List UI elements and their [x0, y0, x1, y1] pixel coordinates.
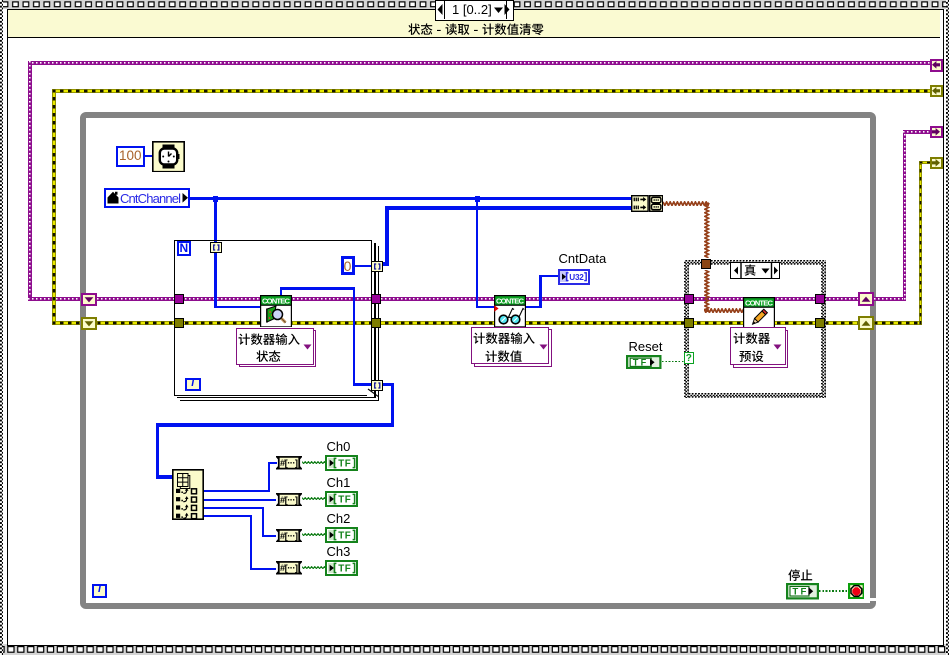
wire: CntChannel main horizontal: [190, 197, 632, 200]
CONTEC VI: counter input read value (计数器输入计数值): [494, 295, 526, 328]
wire: boolean array to Ch2: [302, 533, 326, 536]
VI label box 计数器输入/计数值: [474, 329, 552, 367]
case task tunnel right: [815, 294, 825, 304]
wire: row1 into conv Ch0: [268, 462, 277, 464]
wire: cluster into preset VI: [704, 308, 743, 313]
wire: task into left shift register: [28, 297, 82, 301]
wire: cluster inside case down: [704, 270, 709, 312]
wire: boolean array to Ch3: [302, 566, 326, 569]
wire: branch down to counter-read VI: [476, 197, 479, 307]
wire: task from right shift register: [874, 297, 905, 301]
wire: index out row4: [204, 515, 252, 517]
case selector ? terminal: [684, 352, 695, 364]
label text 状态: [256, 350, 282, 365]
for loop frame 2 right/bottom: [374, 243, 375, 399]
svg-text:CntChannel: CntChannel: [120, 191, 181, 206]
wire: 0 constant to tunnel: [354, 265, 371, 267]
sequence frame left zigzag edge: [0, 0, 3, 655]
label dropdown arrow: [539, 344, 548, 350]
wire: tunnel stub: [379, 262, 389, 266]
wire: into counter-read VI input: [476, 306, 494, 309]
wire: row3 into conv Ch2: [262, 535, 277, 537]
wire: array down to index array: [156, 423, 159, 477]
case cluster input tunnel: [701, 259, 711, 269]
wire: init array to build-array: [385, 206, 631, 209]
wire: error (olive) top horizontal: [52, 89, 931, 93]
wire: into counter-status VI input: [214, 306, 260, 309]
wire: task (magenta) top horizontal: [28, 61, 931, 65]
stacked sequence frame: bottom film strip: [0, 644, 949, 655]
label text 计数值: [485, 350, 523, 365]
case error tunnel left: [684, 318, 694, 328]
label Ch2: [327, 511, 357, 526]
label CntData: [559, 251, 619, 266]
label text 预设: [739, 350, 765, 365]
wire: boolean array to Ch1: [302, 497, 326, 500]
wire: status out horizontal: [280, 287, 355, 290]
wire: counter-status VI out stub up: [280, 288, 283, 296]
CONTEC VI: counter input status (计数器输入状态): [260, 295, 292, 328]
case selector label 真: [730, 262, 780, 279]
wire: status out vertical down: [353, 287, 356, 384]
for loop auto-index output tunnel: [371, 380, 384, 391]
number-to-boolean-array Ch3: [276, 561, 302, 575]
sequence frame right zigzag edge: [946, 0, 949, 655]
while loop border: [80, 112, 876, 609]
wire: counter-read out stub: [526, 306, 542, 309]
while loop left shift register (task): [81, 293, 97, 306]
wire: loop array out stub: [381, 383, 394, 386]
label text 计数器: [733, 332, 771, 347]
wire: task right vertical up: [903, 130, 907, 302]
while loop right shift register (task): [858, 292, 874, 306]
while loop condition terminal (stop sign): [848, 583, 865, 599]
while loop right shift register (error): [858, 316, 874, 330]
wire: error from right shift register: [874, 321, 922, 325]
svg-text:CONTEC: CONTEC: [262, 296, 291, 305]
build array function: [631, 195, 649, 212]
wire: error main horizontal through loop: [97, 321, 858, 325]
wire: branch down to for-loop tunnel: [214, 197, 217, 243]
label 停止: [788, 569, 814, 584]
wire: array out vertical down: [391, 383, 394, 425]
case task tunnel left: [684, 294, 694, 304]
wire: task main horizontal through loop: [97, 297, 858, 301]
wire: cluster down to case tunnel: [704, 202, 709, 258]
for loop init tunnel (0): [371, 261, 384, 272]
while loop left shift register (error): [81, 317, 97, 330]
wire: row4 into conv Ch3: [250, 568, 277, 570]
indicator Ch3 [TF]: [325, 560, 358, 576]
svg-text:#[···]: #[···]: [280, 457, 298, 468]
wire: boolean array to Ch0: [302, 461, 326, 464]
index array function (expanded x4): [172, 469, 204, 520]
number-to-boolean-array Ch1: [276, 493, 302, 507]
for loop frame 3 right/bottom: [378, 246, 379, 402]
CONTEC VI: counter preset (计数器预设): [743, 297, 775, 330]
svg-text:#[···]: #[···]: [280, 494, 298, 505]
wire: error into left shift register: [52, 321, 82, 325]
label dropdown arrow: [773, 344, 782, 350]
for loop dog-ear corner: [367, 388, 372, 396]
wire: index out row2 to conv Ch1: [204, 499, 277, 501]
wire: error to out sequence local: [919, 161, 931, 165]
numeric constant 0: [341, 256, 355, 276]
for loop count terminal N: [177, 241, 192, 256]
VI label box 计数器输入/状态: [239, 330, 317, 367]
control terminal CntChannel: [104, 188, 190, 208]
sequence local out (task): [930, 126, 943, 139]
for loop border (stacked frames): [174, 240, 372, 396]
label Reset: [629, 339, 669, 354]
indicator Ch1 [TF]: [325, 491, 358, 507]
boolean local variable Reset (TF): [626, 355, 662, 370]
wire: read out vertical up: [539, 275, 542, 309]
svg-text:TF: TF: [338, 564, 351, 575]
svg-text:TF: TF: [338, 531, 351, 542]
label text 计数器输入: [238, 333, 301, 348]
wire: init array tunnel up vertical: [385, 206, 388, 266]
indicator CntData [U32]: [558, 269, 590, 285]
svg-text:TF: TF: [633, 357, 647, 367]
for loop error tunnel right: [371, 318, 381, 328]
numeric constant 100: [116, 146, 145, 167]
for loop error tunnel left: [174, 318, 184, 328]
boolean control 停止 (TF): [786, 583, 819, 600]
wire junction: [475, 196, 481, 202]
wire: status out into right tunnel: [353, 383, 372, 386]
wire: index out row3: [204, 507, 264, 509]
svg-text:U32: U32: [569, 273, 584, 282]
for loop auto-index input tunnel: [210, 242, 223, 253]
wait until next ms multiple function: [152, 141, 185, 173]
wire: 停止 to loop condition terminal: [819, 590, 847, 592]
sequence local in (task): [930, 59, 943, 72]
label dropdown arrow: [303, 344, 312, 350]
stacked sequence frame: top film strip: [0, 0, 949, 9]
sequence local out (error): [930, 157, 943, 170]
label Ch1: [327, 475, 357, 490]
svg-text:CONTEC: CONTEC: [496, 296, 525, 305]
wire: error right vertical up: [919, 161, 923, 325]
wire: error left vertical: [52, 89, 56, 325]
wire: row1 up: [268, 462, 270, 492]
svg-text:TF: TF: [338, 459, 351, 470]
wire: array out horizontal left: [156, 423, 395, 426]
case error tunnel right: [815, 318, 825, 328]
wire: tunnel down inside for loop: [214, 252, 217, 308]
sequence frame title 状态-读取-计数值清零: [408, 23, 545, 38]
for loop task tunnel left: [174, 294, 184, 304]
case selector text 真: [744, 264, 757, 278]
wire: row4 down: [250, 515, 252, 568]
svg-text:#[···]: #[···]: [280, 562, 298, 573]
case structure border (checkered): [684, 260, 826, 265]
wire: 100 to wait function: [145, 155, 153, 157]
for loop iteration terminal i: [185, 378, 201, 391]
wire: Reset to case selector: [662, 361, 684, 363]
wire junction: [213, 196, 219, 202]
wire: index out row1: [204, 490, 270, 492]
wire: read out to CntData: [539, 275, 559, 278]
array to cluster function: [649, 195, 663, 212]
wire: row3 down: [262, 507, 264, 536]
wire: array into index array: [156, 475, 173, 478]
label Ch3: [327, 544, 357, 559]
label text 计数器输入: [473, 332, 536, 347]
wire: task to out sequence local: [903, 130, 931, 134]
svg-text:TF: TF: [338, 495, 351, 506]
while loop corner notch: [867, 598, 875, 602]
number-to-boolean-array Ch0: [276, 456, 302, 470]
svg-text:CONTEC: CONTEC: [745, 298, 774, 307]
sequence local in (error): [930, 85, 943, 98]
VI label box 计数器/预设: [733, 330, 789, 368]
wire: task left vertical: [28, 61, 32, 301]
wire: cluster from array-to-cluster: [663, 201, 709, 206]
while loop iteration terminal i: [92, 584, 107, 598]
sequence frame label band (yellow): [8, 10, 940, 38]
svg-text:#[···]: #[···]: [280, 530, 298, 541]
label Ch0: [327, 439, 357, 454]
sequence selector 1 [0..2]: [435, 0, 514, 21]
for loop task tunnel right: [371, 294, 381, 304]
indicator Ch2 [TF]: [325, 527, 358, 543]
indicator Ch0 [TF]: [325, 455, 358, 471]
number-to-boolean-array Ch2: [276, 529, 302, 543]
